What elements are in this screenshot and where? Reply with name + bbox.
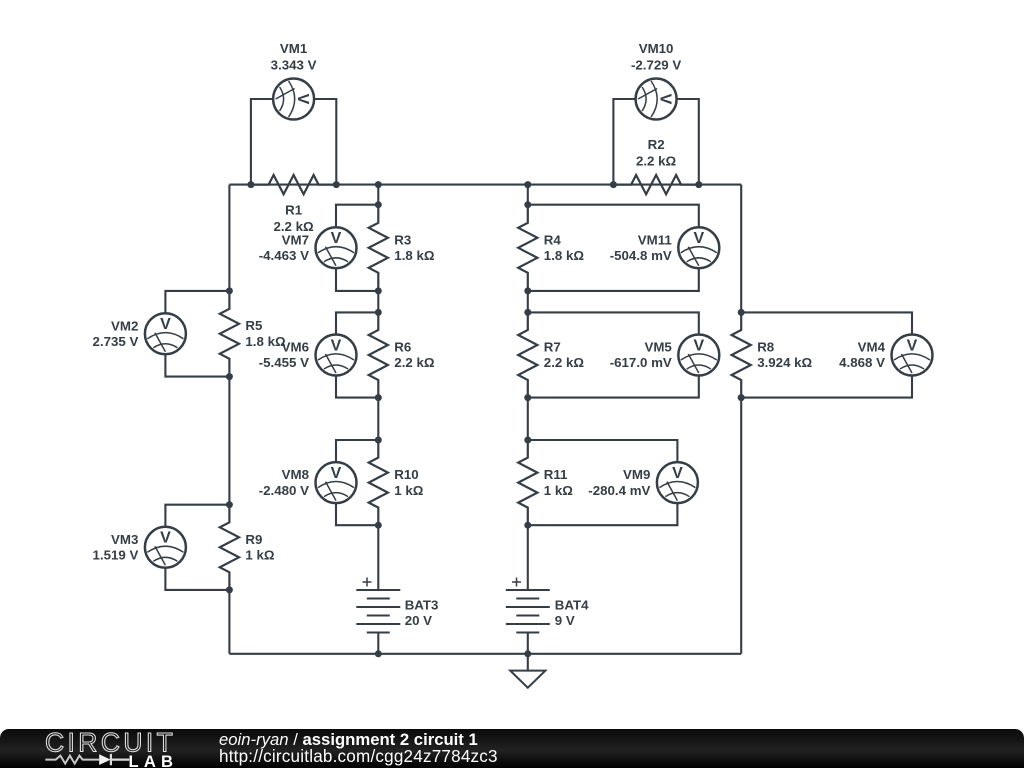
wire bottom bus (229, 653, 741, 655)
svg-text:1 kΩ: 1 kΩ (394, 483, 423, 498)
svg-text:V: V (331, 337, 342, 354)
svg-text:R11: R11 (544, 467, 568, 482)
svg-text:9 V: 9 V (555, 613, 575, 628)
svg-text:1.519 V: 1.519 V (93, 548, 139, 563)
wire VM4 loop (741, 312, 912, 397)
svg-text:-504.8 mV: -504.8 mV (610, 248, 672, 263)
wire rail2 seg1 (377, 185, 379, 205)
svg-text:3.343 V: 3.343 V (271, 58, 317, 73)
wire VM10 loop (613, 99, 698, 185)
svg-text:-2.480 V: -2.480 V (259, 483, 309, 498)
junction R10 top (375, 437, 382, 444)
wire rail2 seg3 (377, 398, 379, 440)
svg-text:1.8 kΩ: 1.8 kΩ (544, 248, 585, 263)
svg-text:BAT3: BAT3 (405, 597, 439, 612)
svg-text:VM9: VM9 (623, 467, 650, 482)
wire VM11 loop (528, 205, 699, 291)
resistor R5 (220, 291, 239, 377)
junction VM1 left / R1 left (247, 181, 254, 188)
battery BAT4 (506, 589, 550, 591)
wire VM1 loop (251, 99, 336, 185)
voltmeter VM6 (316, 335, 357, 376)
svg-text:-2.729 V: -2.729 V (631, 58, 681, 73)
svg-text:V: V (693, 230, 704, 247)
svg-text:V: V (160, 530, 171, 547)
resistor R6 (369, 312, 388, 397)
wire right rail lower (740, 398, 742, 654)
junction top bus / rail3 (524, 181, 531, 188)
wire top bus (229, 184, 741, 186)
resistor R9 (220, 505, 239, 590)
ground (510, 671, 545, 688)
svg-text:R1: R1 (285, 203, 303, 218)
wire VM9 loop (528, 440, 678, 525)
footer url text (219, 747, 498, 767)
wire VM3 loop (165, 505, 229, 590)
resistor R4 (518, 205, 537, 291)
junction R8 bottom (738, 394, 745, 401)
logo resistor-diode glyph (45, 756, 99, 764)
junction R4 bottom (524, 287, 531, 294)
junction BAT3 bottom bus (375, 650, 382, 657)
junction R8 top (738, 309, 745, 316)
resistor R8 (732, 312, 751, 397)
svg-text:VM11: VM11 (638, 232, 673, 247)
junction R10 bottom (375, 522, 382, 529)
wire VM5 loop (528, 312, 699, 397)
resistor R11 (518, 440, 537, 525)
wire VM6 loop (336, 312, 378, 397)
wire rail2 seg2 (377, 291, 379, 313)
junction R9 bottom (226, 586, 233, 593)
svg-text:2.2 kΩ: 2.2 kΩ (394, 355, 435, 370)
wire left rail middle (228, 377, 230, 505)
voltmeter VM3 (145, 527, 186, 568)
junction R4 top (524, 201, 531, 208)
svg-text:2.2 kΩ: 2.2 kΩ (636, 154, 677, 169)
CircuitLab logo wordmark CIRCUIT (40, 728, 180, 768)
svg-text:1 kΩ: 1 kΩ (245, 548, 274, 563)
junction top bus / rail2 (375, 181, 382, 188)
svg-text:R8: R8 (757, 340, 774, 355)
svg-text:R7: R7 (544, 340, 561, 355)
svg-text:-617.0 mV: -617.0 mV (610, 355, 672, 370)
junction VM1 right / R1 right (333, 181, 340, 188)
wire right rail upper (740, 185, 742, 313)
svg-text:1 kΩ: 1 kΩ (544, 483, 573, 498)
wire rail2 battery bottom lead (377, 633, 379, 654)
svg-text:R5: R5 (245, 318, 263, 333)
footer bar (0, 729, 1024, 768)
footer title text (219, 730, 478, 750)
junction R11 top (524, 437, 531, 444)
voltmeter VM1 (273, 79, 314, 120)
wire rail3 seg1 (527, 185, 529, 205)
resistor R7 (518, 312, 537, 397)
voltmeter VM11 (678, 227, 719, 268)
voltmeter VM7 (316, 227, 357, 268)
voltmeter VM2 (145, 313, 186, 354)
svg-text:3.924 kΩ: 3.924 kΩ (757, 355, 812, 370)
voltmeter VM4 (892, 335, 933, 376)
junction R5 top (226, 287, 233, 294)
wire VM8 loop (336, 440, 378, 525)
junction R5 bottom (226, 373, 233, 380)
svg-text:VM10: VM10 (639, 41, 674, 56)
wire left rail upper (228, 185, 230, 291)
resistor R3 (369, 205, 388, 291)
junction R3 top (375, 201, 382, 208)
wire rail3 seg3 (527, 398, 529, 440)
wire left rail lower (228, 590, 230, 654)
junction BAT4 / ground (524, 650, 531, 657)
svg-text:R6: R6 (394, 340, 411, 355)
svg-text:R9: R9 (245, 532, 262, 547)
junction R3 bottom (375, 287, 382, 294)
wire rail3 seg2 (527, 291, 529, 313)
svg-text:V: V (693, 337, 704, 354)
battery BAT3 (356, 589, 400, 591)
resistor R10 (369, 440, 388, 525)
voltmeter VM10 (636, 79, 677, 120)
junction R7 bottom (524, 394, 531, 401)
junction R9 top (226, 501, 233, 508)
svg-text:VM2: VM2 (111, 318, 138, 333)
svg-text:2.2 kΩ: 2.2 kΩ (544, 355, 585, 370)
wire VM2 loop (165, 291, 229, 377)
junction VM10 left / R2 left (610, 181, 617, 188)
CircuitLab logo wordmark LAB (129, 752, 179, 768)
svg-text:V: V (657, 94, 674, 105)
svg-text:R10: R10 (394, 467, 418, 482)
svg-text:V: V (907, 337, 918, 354)
svg-text:4.868 V: 4.868 V (839, 355, 885, 370)
svg-text:-4.463 V: -4.463 V (259, 248, 309, 263)
svg-text:20 V: 20 V (405, 613, 432, 628)
wire rail3 seg4 battery top lead (527, 525, 529, 590)
svg-text:V: V (331, 465, 342, 482)
svg-text:R2: R2 (648, 137, 665, 152)
svg-text:V: V (672, 465, 683, 482)
svg-text:VM3: VM3 (111, 532, 138, 547)
resistor R1 (251, 175, 336, 194)
junction R6 top (375, 309, 382, 316)
wire VM7 loop (336, 205, 378, 291)
voltmeter VM9 (657, 462, 698, 503)
resistor R2 (613, 175, 698, 194)
svg-text:1.8 kΩ: 1.8 kΩ (394, 248, 435, 263)
junction R7 top (524, 309, 531, 316)
svg-text:-280.4 mV: -280.4 mV (588, 483, 650, 498)
svg-text:V: V (160, 316, 171, 333)
svg-text:V: V (294, 94, 311, 105)
svg-text:1.8 kΩ: 1.8 kΩ (245, 334, 286, 349)
svg-text:VM7: VM7 (282, 232, 309, 247)
svg-text:R3: R3 (394, 232, 411, 247)
svg-text:VM4: VM4 (858, 340, 886, 355)
svg-text:BAT4: BAT4 (555, 597, 589, 612)
svg-text:VM5: VM5 (644, 340, 672, 355)
svg-text:VM6: VM6 (282, 340, 309, 355)
junction R6 bottom (375, 394, 382, 401)
voltmeter VM5 (678, 335, 719, 376)
wire rail2 seg4 battery top lead (377, 525, 379, 590)
svg-text:-5.455 V: -5.455 V (259, 355, 309, 370)
svg-text:VM8: VM8 (282, 467, 309, 482)
junction R11 bottom (524, 522, 531, 529)
wire rail3 battery bottom lead (527, 633, 529, 654)
svg-text:2.735 V: 2.735 V (93, 334, 139, 349)
voltmeter VM8 (316, 462, 357, 503)
wire ground lead (527, 654, 529, 671)
svg-text:VM1: VM1 (280, 41, 308, 56)
svg-text:V: V (331, 230, 342, 247)
junction VM10 right / R2 right (695, 181, 702, 188)
svg-text:R4: R4 (544, 232, 562, 247)
